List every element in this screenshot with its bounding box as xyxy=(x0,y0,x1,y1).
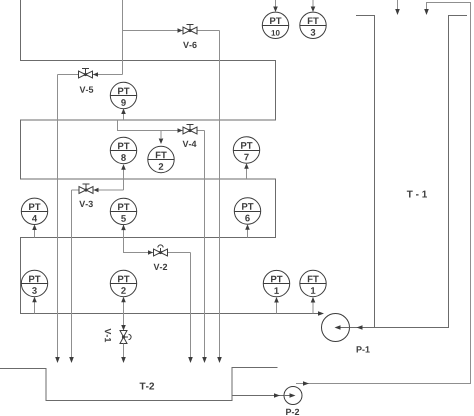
flow arrow at V-3 xyxy=(94,188,99,193)
arrow into FT-3 xyxy=(311,7,316,13)
arrow recycle into T-1 xyxy=(424,9,429,15)
flow arrow at V-2 xyxy=(148,250,153,255)
wire V-3 branch xyxy=(72,189,124,191)
stem to PT-6 xyxy=(247,226,249,238)
label P-1 xyxy=(357,346,370,352)
label V-6 xyxy=(183,42,197,48)
wire T-1 bottom to P-1 suction xyxy=(350,327,375,329)
wire serpentine main flow path xyxy=(21,0,320,314)
label V-4 xyxy=(183,141,197,147)
arrow into PT-5 xyxy=(121,225,126,231)
wire feed to PT-10 xyxy=(275,0,277,7)
wire feed into T-1 left nozzle xyxy=(397,0,399,9)
vessel T-2 xyxy=(0,368,278,401)
wire V-3 drop line xyxy=(71,190,73,357)
label V-5 xyxy=(80,87,94,93)
label V-1 xyxy=(105,328,111,342)
instrument PT-1 xyxy=(263,270,289,296)
arrow V-2 drop into T-2 xyxy=(188,357,193,363)
label V-2 xyxy=(154,264,168,270)
arrow on P-2 discharge xyxy=(303,381,309,386)
flow arrow at V-6 xyxy=(178,28,183,33)
arrow serpentine outlet into P-1 xyxy=(318,311,324,316)
label T-2 xyxy=(140,383,154,390)
flow arrow at V-4 xyxy=(178,128,183,133)
valve V-3 xyxy=(79,184,93,194)
stem to FT-1 xyxy=(312,299,314,314)
instrument PT-10 xyxy=(262,12,288,38)
arrow V-6 drop into T-2 xyxy=(217,357,222,363)
wire PT-5 tap down to V-2 xyxy=(124,225,191,253)
wire serpentine tap to V-1 xyxy=(123,314,125,327)
flow arrow at V-5 xyxy=(93,72,98,77)
wire V-2 drop line xyxy=(190,253,192,358)
stem to PT-7 xyxy=(246,165,248,179)
arrow into PT-10 xyxy=(273,7,278,13)
wire T-2 to P-2 suction xyxy=(232,395,284,397)
valve V-4 xyxy=(183,125,197,135)
wire feed riser to V-5 and V-6 xyxy=(122,0,124,75)
label P-2 xyxy=(286,409,299,415)
instrument PT-5 xyxy=(110,198,136,224)
wire feed to FT-3 xyxy=(312,0,314,7)
wire V-1 drop to T-2 xyxy=(123,344,125,358)
pump P-2 xyxy=(284,387,302,405)
wire branch down to FT-2 xyxy=(160,131,162,139)
label V-3 xyxy=(79,201,93,207)
instrument PT-7 xyxy=(233,137,259,163)
instrument PT-8 xyxy=(110,137,136,163)
pump P-1 xyxy=(322,314,350,342)
instrument PT-6 xyxy=(234,198,260,224)
wire V-6 drop line xyxy=(219,31,221,358)
wire V-6 branch xyxy=(123,30,220,32)
instrument PT-9 xyxy=(110,82,136,108)
wire V-4 branch from serpentine xyxy=(118,120,205,131)
arrow V-5 drop into T-2 xyxy=(55,357,60,363)
valve V-5 xyxy=(79,69,93,79)
instrument PT-4 xyxy=(21,198,47,224)
vessel T-1 xyxy=(356,16,467,328)
instrument PT-3 xyxy=(21,270,47,296)
wire V-5 branch xyxy=(58,74,123,76)
arrow feed into T-1 left nozzle xyxy=(395,9,400,15)
valve V-1 xyxy=(120,331,131,344)
arrow V-4 drop into T-2 xyxy=(202,357,207,363)
stem to PT-4 xyxy=(34,226,36,238)
arrow V-1 drop into T-2 xyxy=(121,357,126,363)
stem to PT-1 xyxy=(276,299,278,314)
wire V-4 drop line xyxy=(204,131,206,358)
arrow into V-1 xyxy=(121,325,126,331)
instrument FT-1 xyxy=(300,270,326,296)
instrument FT-3 xyxy=(300,12,326,38)
arrow V-3 drop into T-2 xyxy=(69,357,74,363)
arrow into FT-2 xyxy=(159,139,164,145)
valve V-2 xyxy=(154,245,168,256)
valve V-6 xyxy=(183,25,197,35)
stem to PT-3 xyxy=(34,299,36,314)
stem to PT-2 xyxy=(123,299,125,314)
arrow into PT-8 xyxy=(121,164,126,170)
arrow on P-2 suction xyxy=(274,393,280,398)
arrow on P-1 suction xyxy=(357,325,363,330)
instrument PT-2 xyxy=(110,270,136,296)
instrument FT-2 xyxy=(148,146,174,172)
wire stem V-3 line to PT-8 xyxy=(123,166,125,190)
wire P-2 discharge recycle to T-1 top xyxy=(296,3,471,384)
stem to PT-9 xyxy=(123,110,125,120)
wire V-5 drop line xyxy=(57,75,59,358)
label T-1 xyxy=(407,191,427,198)
